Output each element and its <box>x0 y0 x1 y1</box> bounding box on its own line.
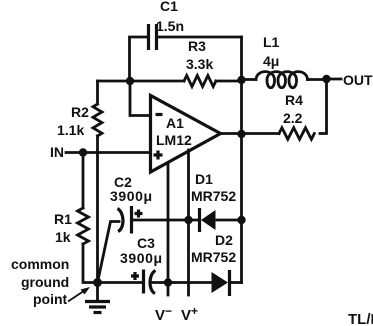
svg-text:1.5n: 1.5n <box>156 18 184 34</box>
node B (output top junction) <box>237 76 245 84</box>
svg-text:D2: D2 <box>215 232 233 248</box>
arrow to ground point <box>68 287 90 302</box>
svg-text:ground: ground <box>21 274 69 290</box>
inductor L1 <box>242 34 327 88</box>
node output junction <box>237 130 245 138</box>
wire C2/D1 row <box>133 219 242 222</box>
svg-text:C1: C1 <box>160 0 178 14</box>
capacitor C2 <box>98 174 153 283</box>
svg-text:3900μ: 3900μ <box>120 250 163 266</box>
resistor R1 <box>54 153 98 283</box>
svg-text:3.3k: 3.3k <box>186 56 213 72</box>
capacitor C3 <box>120 235 163 294</box>
op-amp A1 LM12 <box>151 96 221 173</box>
wire inverting input <box>130 81 151 116</box>
svg-text:L1: L1 <box>263 34 280 50</box>
label common ground point <box>11 256 69 307</box>
svg-text:IN: IN <box>50 144 64 160</box>
svg-text:4μ: 4μ <box>263 53 279 69</box>
wire OUT drop <box>320 79 327 134</box>
wire C1 top branch <box>130 37 242 80</box>
resistor R2 <box>57 81 102 283</box>
ground <box>85 283 110 313</box>
node D1 right junction <box>237 216 245 224</box>
node A (feedback junction) <box>126 77 134 85</box>
node IN junction <box>79 148 87 156</box>
label OUT <box>327 72 373 88</box>
svg-text:2.2: 2.2 <box>283 110 303 126</box>
svg-text:R1: R1 <box>54 211 72 227</box>
svg-text:TL/H: TL/H <box>348 311 373 326</box>
node common ground point <box>93 278 102 287</box>
wire V- rail <box>167 164 170 295</box>
resistor R3 <box>184 38 216 87</box>
svg-text:OUT: OUT <box>343 72 373 88</box>
diode D2 <box>191 232 236 296</box>
svg-text:3900μ: 3900μ <box>110 188 153 204</box>
wire main feedback row <box>98 80 242 83</box>
svg-text:MR752: MR752 <box>191 249 236 265</box>
node V- bypass junction <box>164 278 172 286</box>
capacitor C1 <box>149 0 185 50</box>
svg-text:LM12: LM12 <box>156 132 192 148</box>
svg-text:point: point <box>33 291 68 307</box>
svg-text:MR752: MR752 <box>191 188 236 204</box>
node V+ bypass junction <box>184 216 192 224</box>
node OUT junction <box>322 75 330 83</box>
svg-text:R2: R2 <box>71 104 89 120</box>
svg-text:1k: 1k <box>55 229 71 245</box>
svg-text:A1: A1 <box>166 115 184 131</box>
svg-text:R4: R4 <box>285 92 303 108</box>
wire right rail <box>240 37 243 283</box>
svg-text:R3: R3 <box>188 38 206 54</box>
diode D1 <box>191 171 236 232</box>
wire V+ rail <box>187 150 190 295</box>
svg-text:1.1k: 1.1k <box>57 122 84 138</box>
wire ground bus <box>98 281 242 284</box>
wire input row <box>66 151 151 154</box>
resistor R4 <box>242 92 315 139</box>
wire op-amp output <box>221 132 242 135</box>
svg-text:D1: D1 <box>195 171 213 187</box>
svg-text:C3: C3 <box>137 235 155 251</box>
svg-text:common: common <box>11 256 69 272</box>
